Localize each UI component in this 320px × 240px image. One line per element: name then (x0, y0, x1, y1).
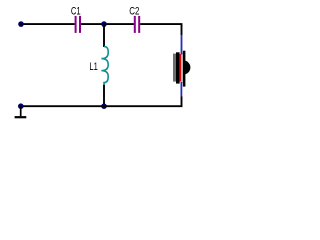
node ground terminal bottom-left (18, 103, 24, 109)
wire top rail right segment with corner down to speaker (140, 24, 181, 35)
wire right branch lower (181, 96, 183, 107)
pin speaker top lead (181, 35, 183, 55)
svg-text:C2: C2 (129, 6, 139, 18)
wire inductor branch upper (103, 24, 105, 47)
capacitor C2 (129, 6, 140, 33)
ground (15, 106, 27, 117)
svg-text:L1: L1 (89, 61, 97, 73)
node junction bottom (101, 103, 107, 109)
loudspeaker LS1 (173, 51, 190, 87)
wire bottom rail (21, 105, 183, 107)
wire top rail left segment (21, 23, 75, 25)
wire top rail middle segment (81, 23, 134, 25)
pin speaker bottom lead (180, 82, 182, 97)
wire inductor branch lower (103, 85, 105, 106)
node input terminal top-left (18, 21, 24, 27)
capacitor C1 (71, 6, 81, 33)
node junction top (inductor tap) (101, 21, 107, 27)
svg-text:C1: C1 (71, 6, 81, 18)
inductor L1 (89, 47, 108, 85)
